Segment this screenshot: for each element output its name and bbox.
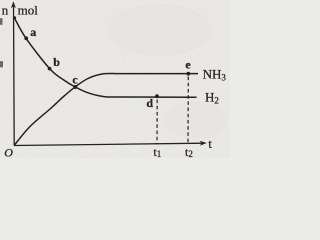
svg-text:t: t — [208, 136, 212, 151]
t2 dashed line — [187, 77, 189, 144]
x-axis — [14, 143, 205, 145]
point d dot — [155, 94, 159, 98]
svg-text:O: O — [4, 146, 13, 159]
svg-text:c: c — [72, 73, 78, 87]
scan blotch mid right — [164, 102, 228, 138]
y-axis — [13, 4, 16, 146]
svg-text:n: n — [2, 2, 9, 17]
svg-text:e: e — [185, 58, 191, 72]
y-axis arrowhead — [11, 1, 16, 8]
point c dot — [73, 85, 77, 89]
svg-text:d: d — [146, 96, 153, 110]
t1 dashed line — [156, 100, 158, 145]
x-axis arrowhead — [200, 141, 207, 146]
start dot on y-axis — [13, 16, 16, 19]
svg-text:a: a — [30, 25, 36, 39]
H2 falling curve — [14, 18, 196, 98]
svg-text:b: b — [53, 55, 60, 69]
svg-text:mol: mol — [18, 2, 39, 17]
point a dot — [24, 36, 28, 40]
edge smudge left upper — [0, 18, 3, 25]
NH3 rising curve — [14, 74, 198, 146]
point e dot — [186, 72, 190, 76]
paper background — [0, 0, 230, 158]
scan blotch top right — [108, 4, 212, 56]
edge smudge left mid — [0, 61, 3, 68]
point b dot — [48, 67, 52, 71]
